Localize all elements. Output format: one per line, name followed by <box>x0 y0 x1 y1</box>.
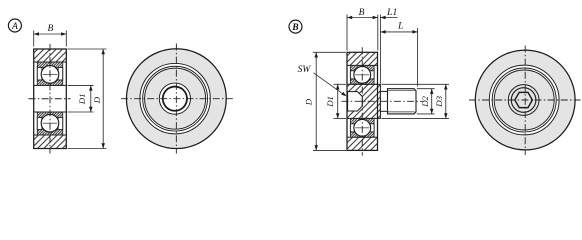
dimension L <box>380 22 417 87</box>
dimension D3 <box>382 84 450 118</box>
dimension D2 <box>417 89 435 114</box>
bearing A upper ball + shields <box>37 62 62 85</box>
svg-text:SW: SW <box>298 65 312 75</box>
svg-text:D3: D3 <box>434 95 444 107</box>
centerline A side horizontal <box>29 98 71 100</box>
svg-text:L1: L1 <box>386 8 397 18</box>
front view B outer circle <box>475 50 575 150</box>
centerline B front horizontal <box>469 99 581 101</box>
bearing B lower ball + shields <box>350 118 374 137</box>
dimension L1 <box>380 8 397 83</box>
front view A inner ring edge <box>159 83 190 114</box>
svg-text:D: D <box>92 96 102 104</box>
centerline A front horizontal <box>121 98 234 100</box>
svg-text:D1: D1 <box>77 93 87 105</box>
hex socket section SW <box>348 92 363 111</box>
hex socket front <box>515 92 533 107</box>
bearing A lower ball + shields <box>37 112 62 135</box>
front view A bore <box>163 87 187 111</box>
svg-text:D: D <box>304 98 314 106</box>
dimension D1 (variant A) <box>68 85 94 112</box>
bearing B outer ring section <box>347 52 378 150</box>
centerline B side vertical <box>361 47 363 155</box>
thread minor diameter lines <box>388 90 415 92</box>
front view A outer circle <box>126 49 226 149</box>
variant label B <box>289 20 302 33</box>
dimension B (variant A) <box>34 24 67 46</box>
svg-text:L: L <box>397 22 403 32</box>
svg-text:B: B <box>47 24 53 34</box>
bearing B upper ball + shields <box>350 65 374 84</box>
front view B shield groove circles <box>492 68 556 132</box>
front view A shield groove circles <box>143 66 208 131</box>
svg-text:D2: D2 <box>420 95 430 107</box>
bearing A bore lines <box>34 85 67 112</box>
dimension D1 (variant B) <box>325 84 346 118</box>
threaded stud body <box>388 89 417 114</box>
centerline A side vertical <box>49 44 51 154</box>
centerline A front vertical <box>175 44 177 154</box>
front view B outer ring inner edge <box>489 65 559 135</box>
washer section <box>378 84 381 118</box>
dimension D (variant A) <box>68 49 107 149</box>
front view B thread circle D2 <box>511 88 536 113</box>
front view B collar circle D3 <box>508 85 539 116</box>
stud neck <box>380 91 387 111</box>
dimension B (variant B) <box>347 8 378 51</box>
variant label A <box>8 19 21 32</box>
svg-text:B: B <box>291 22 299 33</box>
bearing A outer ring section <box>34 49 67 149</box>
dimension D (variant B) <box>304 52 347 150</box>
centerline B side horizontal <box>342 100 424 102</box>
svg-text:B: B <box>359 8 365 18</box>
SW label and leader <box>298 65 347 96</box>
svg-text:D1: D1 <box>325 96 335 108</box>
front view A outer ring inner edge <box>140 63 210 133</box>
centerline B front vertical <box>524 46 526 156</box>
svg-text:A: A <box>11 21 18 32</box>
bearing B inner ring hatched <box>347 84 378 118</box>
